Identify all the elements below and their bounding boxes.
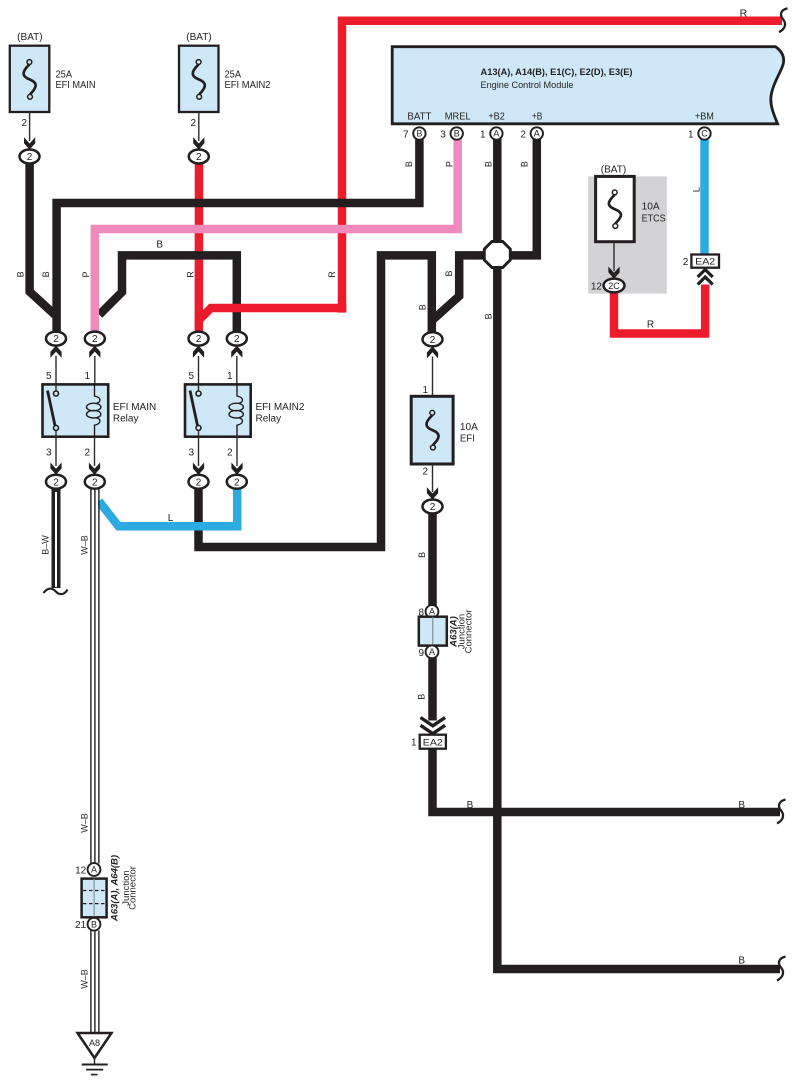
connector 2 below EFI MAIN2 relay pin3 bbox=[189, 475, 209, 489]
svg-text:EFI MAIN: EFI MAIN bbox=[113, 402, 156, 413]
svg-text:R: R bbox=[327, 271, 337, 278]
wire B relay coil feed: EFI MAIN2 relay pin 1 up, left, down, diagonal into P wire bbox=[99, 255, 237, 338]
svg-text:ETCS: ETCS bbox=[642, 214, 666, 225]
label R top off-page wire bbox=[740, 7, 748, 19]
ground A8 bbox=[78, 1033, 112, 1075]
svg-text:A: A bbox=[493, 129, 499, 139]
svg-text:A8: A8 bbox=[89, 1038, 100, 1048]
svg-text:12: 12 bbox=[75, 866, 87, 877]
wire W-B from junction connector pin 21 down to ground A8 bbox=[91, 930, 99, 1034]
svg-text:2: 2 bbox=[196, 334, 202, 345]
fuse 25A EFI MAIN bbox=[10, 31, 96, 150]
svg-text:MREL: MREL bbox=[445, 112, 471, 123]
svg-text:(BAT): (BAT) bbox=[601, 164, 627, 176]
wire R from ETCS fuse 2C down, right, up to EA2 chevrons bbox=[614, 285, 705, 334]
connector 2 below EFI MAIN relay pin2 bbox=[85, 475, 105, 489]
ground connector EA2 (1) bbox=[411, 735, 446, 749]
wire R branch at y=308 joining fuse output vertical (drawn over black) bbox=[199, 304, 342, 320]
connector 2 above 10A EFI fuse bbox=[423, 332, 443, 396]
label B on y812 horizontal right bbox=[738, 800, 745, 811]
svg-text:Relay: Relay bbox=[256, 413, 282, 424]
ECM A13(A), A14(B), E1(C), E2(D), E3(E) Engine Control Module block bbox=[392, 47, 783, 124]
svg-text:3: 3 bbox=[46, 448, 52, 459]
wire R fuse EFI MAIN2 output vertical to relay 5 bbox=[195, 157, 204, 339]
svg-text:B–W: B–W bbox=[41, 535, 51, 555]
svg-text:B: B bbox=[156, 240, 163, 251]
label B on BATT wire bbox=[404, 161, 414, 167]
svg-text:3: 3 bbox=[188, 448, 194, 459]
ECM pin 3 (B) MREL bbox=[440, 127, 463, 140]
svg-text:B: B bbox=[444, 270, 454, 276]
svg-text:2: 2 bbox=[196, 477, 202, 488]
wire B from BATT pin 7(B) left and down to EFI MAIN relay pin 5 bbox=[57, 137, 420, 339]
svg-text:(BAT): (BAT) bbox=[17, 31, 43, 43]
svg-text:9: 9 bbox=[418, 648, 424, 659]
svg-text:1: 1 bbox=[480, 130, 486, 141]
svg-text:1: 1 bbox=[84, 371, 90, 382]
fuse 10A ETCS bbox=[596, 164, 666, 279]
svg-text:EA2: EA2 bbox=[695, 256, 715, 267]
svg-text:5: 5 bbox=[188, 371, 194, 382]
svg-text:1: 1 bbox=[411, 738, 417, 749]
wire L from EFI MAIN relay pin 2 to EFI MAIN2 relay pin 2 (blue) bbox=[99, 489, 237, 527]
EA2 connector chevrons (up) bbox=[698, 270, 713, 285]
EA2 connector chevrons (down) bbox=[421, 718, 446, 734]
svg-text:5: 5 bbox=[46, 371, 52, 382]
svg-text:2: 2 bbox=[683, 257, 689, 268]
label B-W on EFI MAIN relay pin3 wire bbox=[41, 535, 51, 555]
svg-text:Connector: Connector bbox=[464, 610, 475, 654]
label L on +BM wire bbox=[692, 187, 702, 192]
svg-text:2: 2 bbox=[92, 334, 98, 345]
connector 2 above EFI MAIN2 relay pin1 side bbox=[227, 332, 247, 385]
label B on octagon long wire bbox=[484, 313, 494, 319]
svg-text:A: A bbox=[429, 607, 435, 617]
svg-text:Engine Control Module: Engine Control Module bbox=[481, 80, 574, 91]
junction connector A63(A),A64(B) pin 21 (B) bbox=[75, 918, 100, 931]
relay EFI MAIN Relay bbox=[43, 371, 157, 475]
svg-text:R: R bbox=[740, 7, 748, 19]
wire B from +B2 pin 1(A) down to junction octagon bbox=[493, 137, 502, 255]
svg-text:B: B bbox=[454, 129, 460, 139]
svg-text:B: B bbox=[91, 919, 97, 929]
svg-text:EFI MAIN2: EFI MAIN2 bbox=[256, 402, 305, 413]
connector 2 above EFI MAIN relay pin1 side bbox=[85, 332, 105, 385]
junction connector A63(A),A64(B) pin 12 (A) bbox=[75, 863, 100, 876]
svg-text:2: 2 bbox=[430, 502, 436, 513]
svg-text:W–B: W–B bbox=[80, 813, 90, 833]
wire B from EFI MAIN fuse output down, diagonal join into relay pin 5 wire bbox=[30, 157, 57, 317]
label B on octagon-to-fuse wire bbox=[444, 270, 454, 276]
svg-text:2: 2 bbox=[430, 335, 436, 346]
svg-text:2: 2 bbox=[234, 477, 240, 488]
wire B-W from EFI MAIN relay pin 3 down to break bbox=[44, 489, 68, 594]
label P on MREL wire bbox=[445, 161, 455, 167]
svg-text:10A: 10A bbox=[642, 202, 660, 213]
svg-text:B: B bbox=[738, 800, 745, 811]
label W-B on left ground wire middle bbox=[80, 813, 90, 833]
svg-text:2: 2 bbox=[422, 467, 428, 478]
label B on EFI MAIN fuse wire bbox=[16, 271, 26, 277]
svg-text:2: 2 bbox=[53, 477, 59, 488]
svg-text:+B: +B bbox=[532, 112, 543, 123]
svg-text:A13(A), A14(B), E1(C), E2(D),: A13(A), A14(B), E1(C), E2(D), E3(E) bbox=[481, 67, 633, 78]
svg-text:B: B bbox=[41, 271, 51, 277]
svg-text:L: L bbox=[692, 187, 702, 192]
svg-text:B: B bbox=[483, 161, 493, 167]
junction connector A63(A) pin 8 (A) bbox=[418, 605, 438, 618]
svg-text:2: 2 bbox=[520, 130, 526, 141]
ECM pin 1 (A) +B2 bbox=[480, 127, 503, 140]
label R on EFI MAIN2 fuse wire bbox=[186, 271, 196, 278]
svg-text:Relay: Relay bbox=[113, 413, 139, 424]
svg-text:A63(A), A64(B): A63(A), A64(B) bbox=[110, 855, 121, 922]
svg-text:2: 2 bbox=[21, 118, 27, 129]
svg-text:7: 7 bbox=[403, 130, 409, 141]
svg-text:B: B bbox=[520, 161, 530, 167]
svg-text:2: 2 bbox=[234, 334, 240, 345]
label B on coil feed horizontal bbox=[156, 240, 163, 251]
svg-text:C: C bbox=[701, 129, 708, 139]
svg-text:10A: 10A bbox=[460, 422, 478, 433]
svg-text:R: R bbox=[647, 320, 654, 331]
wire W-B from EFI MAIN relay pin 2 down to junction connector A63(A),A64(B) bbox=[91, 489, 99, 864]
ETCS fuse gray background panel bbox=[588, 176, 667, 293]
junction connector A63(A) pin 9 (A) bbox=[418, 645, 438, 658]
svg-text:B: B bbox=[417, 552, 427, 558]
svg-text:B: B bbox=[467, 800, 474, 811]
connector 2C below ETCS fuse bbox=[591, 279, 625, 293]
svg-text:P: P bbox=[81, 271, 91, 277]
svg-text:R: R bbox=[186, 271, 196, 278]
wire L from +BM pin 1(C) down to EA2 (blue) bbox=[700, 137, 709, 256]
svg-text:EA2: EA2 bbox=[423, 737, 443, 748]
svg-text:B: B bbox=[16, 271, 26, 277]
svg-text:2C: 2C bbox=[608, 281, 620, 291]
connector 2 below fuse EFI MAIN2 bbox=[189, 150, 209, 164]
svg-text:+BM: +BM bbox=[695, 112, 714, 123]
svg-text:EFI: EFI bbox=[460, 434, 475, 445]
ECM pin 2 (A) +B bbox=[520, 127, 543, 140]
svg-text:L: L bbox=[168, 513, 174, 524]
wire R from EFI MAIN2 fuse to off-page right (top horizontal and drop at x=342) bbox=[342, 8, 788, 312]
label L on blue relay link bbox=[168, 513, 174, 524]
svg-text:B: B bbox=[417, 694, 427, 700]
svg-text:+B2: +B2 bbox=[488, 112, 505, 123]
svg-text:A: A bbox=[534, 129, 540, 139]
wire B from junction connector A63(A) pin 9 to EA2 chevrons bbox=[428, 656, 437, 721]
svg-text:2: 2 bbox=[27, 152, 33, 163]
svg-text:EFI MAIN2: EFI MAIN2 bbox=[225, 80, 271, 91]
label W-B on left ground wire upper bbox=[80, 535, 90, 555]
label B on fuse feed vertical bbox=[417, 304, 427, 310]
label P on relay1 coil wire bbox=[81, 271, 91, 277]
svg-text:Connector: Connector bbox=[128, 866, 139, 910]
svg-text:1: 1 bbox=[422, 385, 428, 396]
label B on +B wire bbox=[520, 161, 530, 167]
svg-text:2: 2 bbox=[227, 448, 233, 459]
svg-text:B: B bbox=[484, 313, 494, 319]
wire B from EA2 down and right to off-page (y=812 horizontal) bbox=[433, 749, 786, 824]
label B on y969 horizontal bbox=[738, 956, 745, 967]
wire B from +B pin 2(A) down and left to junction octagon bbox=[497, 137, 537, 255]
svg-text:2: 2 bbox=[92, 477, 98, 488]
ECM pin 7 (B) BATT bbox=[403, 127, 426, 140]
svg-text:1: 1 bbox=[227, 371, 233, 382]
label B on y812 horizontal left bbox=[467, 800, 474, 811]
relay EFI MAIN2 Relay bbox=[185, 371, 305, 475]
svg-text:P: P bbox=[445, 161, 455, 167]
label R on ETCS red wire bbox=[647, 320, 654, 331]
label B on relay5 feed wire bbox=[41, 271, 51, 277]
junction node octagon (+B2/+B/B net) bbox=[484, 242, 510, 268]
svg-text:3: 3 bbox=[440, 130, 446, 141]
svg-text:W–B: W–B bbox=[80, 535, 90, 555]
junction connector A63(A),A64(B) body bbox=[82, 855, 139, 922]
svg-text:A: A bbox=[91, 865, 97, 875]
wire B from octagon left toward 10A EFI fuse (corner, drop, diagonal) bbox=[432, 255, 498, 320]
svg-text:2: 2 bbox=[190, 118, 196, 129]
label B between junction and EA2 bbox=[417, 694, 427, 700]
wire B from EFI MAIN2 relay pin 3 up over to 10A EFI fuse input bbox=[199, 255, 433, 547]
svg-text:12: 12 bbox=[591, 282, 603, 293]
svg-text:EFI MAIN: EFI MAIN bbox=[56, 80, 96, 91]
svg-text:2: 2 bbox=[196, 152, 202, 163]
label B on +B2 wire bbox=[483, 161, 493, 167]
svg-text:1: 1 bbox=[688, 130, 694, 141]
connector 2 below fuse EFI MAIN bbox=[20, 150, 40, 164]
fuse 25A EFI MAIN2 bbox=[179, 31, 271, 150]
svg-text:2: 2 bbox=[84, 448, 90, 459]
connector 2 below EFI MAIN2 relay pin2 bbox=[227, 475, 247, 489]
ground connector EA2 (2) bbox=[683, 255, 719, 269]
connector 2 above EFI MAIN2 relay pin5 side bbox=[189, 332, 209, 385]
svg-text:BATT: BATT bbox=[407, 112, 431, 123]
svg-text:B: B bbox=[404, 161, 414, 167]
wire B from 10A EFI fuse output to junction connector A63(A) pin 8 bbox=[428, 507, 437, 608]
label B on 10A EFI output wire bbox=[417, 552, 427, 558]
svg-text:B: B bbox=[738, 956, 745, 967]
ECM pin 1 (C) +BM bbox=[688, 127, 711, 140]
fuse 10A EFI bbox=[411, 385, 478, 500]
connector 2 below EFI MAIN relay pin3 bbox=[46, 475, 66, 489]
junction connector A63(A) body bbox=[419, 610, 475, 654]
svg-text:2: 2 bbox=[53, 334, 59, 345]
label R on red drop wire bbox=[327, 271, 337, 278]
svg-text:21: 21 bbox=[75, 920, 87, 931]
svg-text:(BAT): (BAT) bbox=[186, 31, 212, 43]
svg-text:A: A bbox=[429, 647, 435, 657]
svg-text:W–B: W–B bbox=[80, 969, 90, 989]
label W-B on left ground wire lower bbox=[80, 969, 90, 989]
connector 2 above EFI MAIN relay pin5 side bbox=[46, 332, 66, 385]
svg-text:B: B bbox=[417, 304, 427, 310]
wire B octagon bottom long vertical to bottom off-page right bbox=[497, 255, 785, 981]
svg-text:B: B bbox=[416, 129, 422, 139]
connector 2 below 10A EFI fuse bbox=[423, 500, 443, 514]
wire P from MREL pin 3(B) left and down to EFI MAIN relay pin 1 bbox=[95, 137, 458, 339]
